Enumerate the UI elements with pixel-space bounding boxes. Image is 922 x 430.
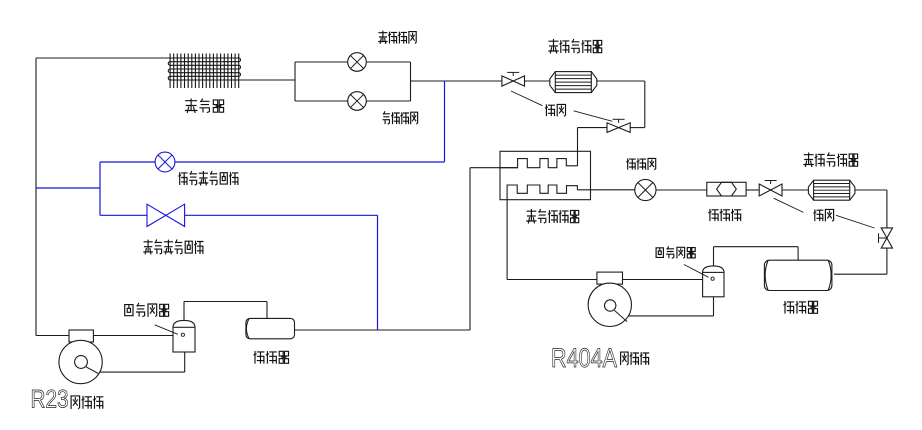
valve: vertical ball valve [881,228,892,238]
leader: 油分离器 (R23) [155,325,178,335]
valve: main supply solenoid 主供液阀 [348,53,367,72]
wire: R23 suction to compressor [36,335,69,337]
wire: left suction riser [35,58,37,336]
valve: hot-gas bypass valve [147,204,185,226]
evaporator coil [170,54,239,89]
compressor R23 head [69,330,93,342]
valve: ball valve 2 [607,123,630,133]
wire: R404A compressor to oil separator [623,279,703,281]
label: 预冷器 [254,352,264,363]
label: 油分离器 (R23) [125,305,133,316]
svg-text:R23: R23 [31,386,69,414]
wire: R23 discharge run [100,371,185,373]
condenser 冷凝器 shell [764,260,832,290]
label: 球阀 (top) [545,105,554,116]
wire: sight glass to ball valve 3 [746,189,759,191]
wire: blue tie-in from suction riser [36,187,100,189]
label: 干燥过滤器 (top) [549,40,558,53]
evap condenser bottom coil [507,185,577,200]
label: evaporator 蒸发器 [185,99,197,112]
label: 冷凝器 [784,302,794,313]
wire: valve box outlet to ball valve 1 [411,80,503,82]
label: 压缩机 (R404A) [621,352,629,365]
compressor R23 body [59,340,102,383]
wire: cold-gas bypass up-leg [444,81,446,162]
leader: 球阀 to ball valve 3 [774,198,804,212]
wire: drop into evaporative condenser top coil [577,128,579,166]
sight glass 视液镜 [707,182,746,196]
precooler 预冷器 [246,318,295,338]
wire: dryer filter 1 to corner [597,80,645,82]
valve: cold-gas bypass solenoid [155,152,175,172]
wire: ball valve 2 to corner [630,127,645,129]
compressor R404A head [597,272,623,284]
wire: corner down to ball valve 2 [644,81,646,128]
wire: into condenser top coil [470,167,518,169]
wire: ball valve 3 to dryer filter 2 [782,189,808,191]
dryer filter 1 干燥过滤器 [555,72,591,93]
label: 压缩机 (R23) [71,396,80,409]
wire: to R404A compressor suction [507,279,597,281]
wire: cold-gas bypass line [100,161,445,163]
label: 视液镜 [709,210,718,221]
label: 次供液阀 [383,112,389,124]
valve: ball valve 3 [759,184,782,196]
compressor R404A body [588,283,631,326]
wire: R404A discharge run [628,315,713,317]
label: 主供液阀 [379,31,387,43]
evaporative condenser shell [500,151,591,199]
wire: hot-gas bypass down-leg [377,215,379,330]
valve box outline [294,62,296,101]
wire: ball valve 2 left to drop [578,127,608,129]
leader: 球阀 to ball valve 1 [511,91,542,106]
wire: separator to condenser inlet header [714,246,799,248]
dryer filter 2 干燥过滤器 [814,180,850,200]
wire: precooler outlet run [295,329,471,331]
wire: bottom coil outlet to supply valve [577,189,634,191]
valve: supply solenoid 供液阀 [635,179,656,200]
wire: evaporator outlet to valve box [239,79,295,81]
label: 油分离器 (R404A) [656,248,663,258]
label: evaporative condenser 蒸发冷凝器 [527,210,536,223]
leader: 球阀 to ball valve 2 [574,111,613,122]
label: cold-gas bypass loop 冷气旁通回路 [179,173,187,185]
oil separator (R23) [173,327,195,352]
wire: evap condenser bottom coil down-leg [506,200,508,280]
wire: R404A oil separator top riser [713,247,715,266]
wire: ball valve 1 to dryer filter 1 [525,80,551,82]
wire: right drop to vertical valve [886,190,888,228]
valve: ball valve 1 [502,76,525,86]
wire: vertical valve to condenser outlet corner [886,248,888,274]
evap condenser top coil [500,159,578,168]
label: 球阀 (right) [814,210,823,221]
label: hot-gas bypass loop 热气旁通回路 [144,240,153,254]
label: 干燥过滤器 (right) [804,153,813,166]
wire: R23 compressor to oil separator [93,335,173,337]
wire: hot-gas bypass line [100,214,378,216]
label: 供液阀 [627,159,635,169]
wire: supply valve to sight glass [656,189,707,191]
wire: riser to evaporative condenser [469,168,471,330]
wire: blue left riser [99,162,101,215]
svg-text:R404A: R404A [551,343,617,373]
wire: top header to evaporator [36,57,170,59]
wire: R23 separator top riser [183,302,185,321]
leader: 球阀 to vertical valve [836,215,875,228]
wire: dryer filter 2 to right corner [855,189,887,191]
oil separator (R404A) [703,272,724,296]
valve: secondary supply solenoid 次供液阀 [348,92,367,111]
leader: 油分离器 (R404A) [684,265,709,278]
